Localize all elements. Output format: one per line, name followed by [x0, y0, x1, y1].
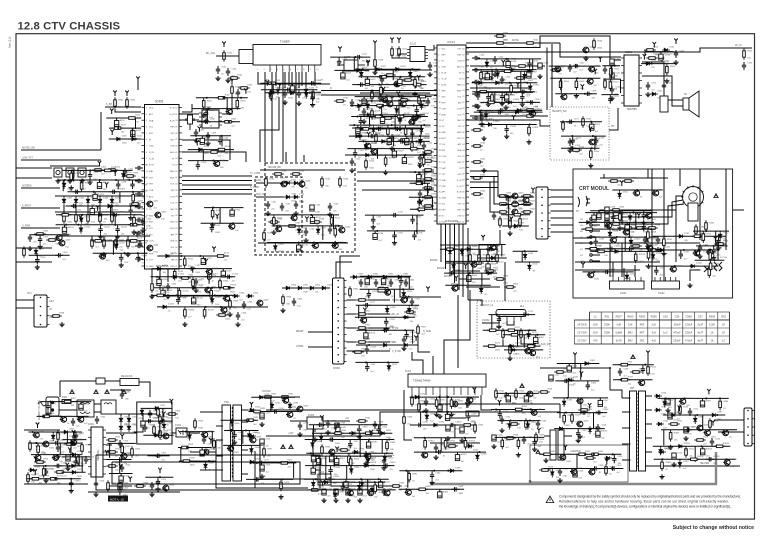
svg-text:D321: D321: [193, 433, 199, 435]
transistor Q101: [393, 81, 400, 87]
resistor R510: [554, 371, 566, 374]
resistor R302: [418, 401, 421, 413]
wire: [374, 231, 376, 234]
capacitor C818: [402, 336, 406, 344]
svg-text:R443: R443: [223, 281, 229, 283]
ground: [683, 436, 688, 441]
transistor N697: [560, 94, 567, 100]
capacitor C1126: [115, 226, 119, 234]
svg-text:D2411: D2411: [696, 263, 703, 265]
capacitor C415: [141, 218, 145, 226]
diode D301: [466, 444, 474, 448]
ground: [296, 101, 301, 106]
svg-text:C1817: C1817: [535, 99, 542, 101]
wire: [502, 225, 529, 227]
svg-text:R934: R934: [325, 447, 331, 449]
svg-text:C914: C914: [89, 457, 95, 459]
CRT pin ticks: [681, 185, 703, 203]
capacitor E286: [445, 414, 449, 420]
warning triangle p124: [122, 390, 126, 394]
capacitor E268: [467, 276, 471, 282]
ground: [697, 254, 702, 259]
resistor R431: [34, 233, 46, 236]
diode D1120: [96, 213, 104, 217]
wire: [241, 409, 248, 411]
resistor R301: [121, 444, 124, 456]
junction: [422, 196, 424, 198]
svg-text:C341: C341: [323, 421, 329, 423]
svg-text:R503: R503: [547, 389, 553, 391]
diode D921: [248, 408, 256, 412]
wire: [491, 70, 493, 80]
wire: [308, 489, 396, 491]
wire: [333, 215, 335, 229]
wire: [112, 241, 114, 255]
capacitor C425: [242, 301, 246, 309]
connector CN501 deflection: [744, 408, 755, 446]
svg-text:C183: C183: [533, 61, 539, 63]
wire: [365, 214, 424, 216]
resistor R102: [228, 77, 240, 80]
capacitor C513: [710, 438, 714, 446]
svg-text:R172: R172: [423, 180, 429, 182]
wire: [109, 443, 111, 458]
transistor Q801: [400, 297, 407, 303]
svg-text:ON/OFF: ON/OFF: [262, 391, 271, 393]
wire: [260, 169, 345, 171]
junction: [301, 225, 303, 227]
transistor N138: [205, 269, 212, 275]
svg-text:N235: N235: [612, 222, 618, 224]
capacitor C918: [150, 482, 154, 490]
svg-text:IC901: IC901: [88, 424, 95, 426]
transistor Q903: [162, 485, 169, 491]
ground: [98, 234, 103, 239]
svg-text:R113: R113: [111, 167, 117, 169]
capacitor C920: [120, 464, 124, 472]
resistor R432: [46, 239, 58, 242]
ground: [492, 72, 497, 77]
wire: [193, 295, 195, 298]
wire: [117, 180, 119, 181]
svg-text:C511: C511: [693, 409, 699, 411]
wire: [499, 230, 501, 245]
ground: [609, 96, 614, 101]
resistor R203: [666, 64, 669, 76]
diode D234: [585, 221, 593, 225]
wire: [447, 412, 449, 415]
capacitor C1813: [500, 93, 504, 101]
junction: [696, 414, 698, 416]
wire: [360, 117, 362, 118]
VCC supply: [382, 87, 386, 93]
resistor R196: [590, 148, 593, 160]
capacitor C1112: [110, 190, 118, 194]
svg-text:R121: R121: [101, 238, 107, 240]
svg-text:C165: C165: [333, 204, 339, 206]
diode D1618: [372, 126, 376, 134]
wire: [654, 458, 736, 460]
wire: [620, 79, 622, 93]
junction: [312, 438, 314, 440]
VCC supply: [707, 389, 711, 395]
svg-text:IR: IR: [50, 309, 53, 311]
ground: [661, 251, 666, 256]
transistor Q402: [154, 212, 161, 218]
junction: [474, 260, 476, 262]
wire: [491, 315, 493, 331]
wire: [137, 253, 139, 254]
capacitor C3610: [595, 410, 603, 414]
resistor R516: [694, 439, 706, 442]
capacitor E1123: [62, 227, 66, 233]
resistor R306: [403, 414, 406, 426]
svg-text:E1111: E1111: [98, 194, 104, 196]
wire: [718, 431, 744, 433]
svg-text:C238: C238: [599, 239, 605, 241]
junction: [370, 148, 372, 150]
wire: [655, 249, 719, 251]
svg-text:1N41: 1N41: [497, 220, 503, 222]
capacitor E187: [527, 72, 531, 78]
wire: [630, 237, 632, 238]
resistor R1615: [395, 115, 407, 118]
wire: [418, 197, 420, 198]
svg-text:D331: D331: [265, 394, 271, 396]
VCC supply: [266, 80, 270, 86]
resistor R303: [467, 396, 470, 408]
svg-text:C56: C56: [675, 315, 680, 319]
wire: [393, 136, 395, 146]
capacitor C302: [116, 457, 124, 461]
capacitor C924: [260, 465, 264, 471]
capacitor C214: [603, 66, 607, 74]
svg-text:N355: N355: [537, 409, 543, 411]
diode D653: [305, 91, 309, 99]
junction: [590, 121, 592, 123]
thick ground bus: [430, 452, 716, 484]
resistor R276: [486, 345, 498, 348]
transistor N1511: [312, 243, 319, 249]
VCC supply: [191, 267, 195, 273]
capacitor C940: [322, 489, 326, 495]
resistor R337: [630, 245, 642, 248]
capacitor C922: [260, 413, 264, 419]
svg-text:1N41: 1N41: [153, 252, 159, 254]
wire: [200, 411, 216, 413]
resistor R323: [179, 446, 191, 449]
svg-text:R158: R158: [339, 229, 345, 231]
resistor R1614: [373, 115, 385, 118]
AC inlet CN901: [46, 397, 59, 416]
speaker LS201: [683, 91, 699, 117]
capacitor C942: [346, 489, 350, 495]
transistor N284: [466, 397, 473, 403]
diode D822: [460, 248, 464, 256]
ground: [417, 207, 422, 212]
svg-text:D157: D157: [321, 228, 327, 230]
VCC supply: [338, 47, 342, 53]
svg-text:E351: E351: [512, 396, 518, 398]
svg-text:R508: R508: [575, 415, 581, 417]
wire: [366, 77, 368, 80]
svg-text:R203: R203: [670, 66, 676, 68]
resistor R423: [87, 212, 90, 224]
wire: [298, 226, 300, 227]
junction: [505, 58, 507, 60]
capacitor C211: [610, 59, 614, 65]
svg-text:C104: C104: [302, 91, 308, 93]
VCC supply: [96, 205, 100, 211]
junction: [480, 82, 482, 84]
capacitor C164: [310, 205, 314, 211]
svg-text:C271: C271: [502, 316, 508, 318]
wire: [59, 409, 77, 411]
delay line DL801: [496, 310, 526, 322]
resistor R134: [422, 187, 434, 190]
svg-text:C1110: C1110: [80, 188, 87, 190]
capacitor C943: [358, 489, 362, 495]
svg-text:1N41: 1N41: [512, 403, 518, 405]
wire: [221, 136, 223, 147]
resistor R103: [270, 89, 273, 101]
H drive transformer T501: [550, 430, 564, 460]
wire: [412, 215, 414, 216]
capacitor C238: [594, 238, 598, 246]
junction: [420, 154, 422, 156]
junction: [423, 124, 425, 126]
junction: [76, 191, 78, 193]
junction: [334, 489, 336, 491]
resistor R214: [646, 57, 658, 60]
svg-text:AV_IN: AV_IN: [735, 44, 742, 47]
ground: [500, 101, 505, 106]
wire: [717, 240, 719, 260]
capacitor C803: [404, 279, 408, 287]
transistor Q501: [526, 391, 533, 397]
capacitor C118: [358, 132, 362, 140]
svg-text:N332: N332: [289, 397, 295, 399]
wire: [211, 432, 213, 447]
ground: [412, 92, 417, 97]
diode D621: [360, 70, 364, 78]
diode D314: [153, 434, 161, 438]
wire: [532, 59, 534, 70]
wire: [454, 425, 456, 438]
VCC supply: [414, 336, 418, 342]
svg-text:1N41: 1N41: [639, 261, 645, 263]
wire: [63, 205, 65, 214]
wire: [359, 76, 426, 78]
svg-text:1N41: 1N41: [575, 422, 581, 424]
svg-text:C346: C346: [335, 436, 341, 438]
wire: [725, 169, 727, 250]
svg-text:1K: 1K: [722, 331, 725, 335]
resistor R502: [515, 388, 518, 400]
VCC supply: [305, 216, 309, 222]
wire: [380, 479, 382, 482]
tuner pin stubs: [270, 65, 315, 72]
resistor R2312: [595, 250, 607, 253]
svg-text:R517: R517: [689, 449, 695, 451]
resistor R121: [92, 240, 104, 243]
resistor R1316: [178, 288, 181, 300]
capacitor C201: [493, 56, 497, 64]
wire: [553, 397, 608, 399]
wire: [50, 165, 100, 167]
svg-text:R325: R325: [190, 458, 196, 460]
capacitor C204: [568, 64, 572, 72]
SMPS controller IC901: [88, 427, 106, 477]
junction: [403, 316, 405, 318]
svg-text:1N41: 1N41: [279, 251, 285, 253]
junction: [132, 191, 134, 193]
svg-text:R2913: R2913: [39, 475, 46, 477]
resistor R338: [695, 224, 698, 236]
capacitor C191: [567, 120, 575, 124]
junction: [292, 214, 294, 216]
wire: [357, 125, 359, 128]
ground: [475, 104, 480, 109]
ground: [645, 92, 650, 97]
svg-text:LOW_TXT: LOW_TXT: [22, 158, 33, 160]
svg-text:C166: C166: [309, 229, 315, 231]
svg-text:C231: C231: [747, 63, 753, 65]
svg-text:R273: R273: [496, 327, 502, 329]
transistor Q300: [511, 193, 518, 199]
wire: [63, 180, 65, 181]
svg-text:14"GKD: 14"GKD: [577, 323, 587, 327]
junction: [115, 179, 117, 181]
resistor R920: [134, 485, 146, 488]
transistor Q161: [280, 181, 287, 187]
diode D2411: [689, 264, 697, 268]
svg-text:R556: R556: [651, 315, 658, 319]
svg-text:1N41: 1N41: [288, 98, 294, 100]
capacitor C137: [188, 266, 196, 270]
ground: [427, 72, 432, 77]
capacitor C800: [359, 279, 363, 287]
junction: [334, 241, 336, 243]
junction: [620, 379, 622, 381]
junction: [521, 408, 523, 410]
junction: [160, 420, 162, 422]
wire: [394, 231, 396, 232]
wire: [733, 209, 744, 211]
diode D115: [62, 181, 66, 189]
diode D311: [153, 407, 161, 411]
svg-text:D504: D504: [661, 407, 667, 409]
capacitor E251: [365, 279, 369, 285]
capacitor E351: [506, 396, 510, 402]
transistor Q332: [706, 249, 713, 255]
resistor R441: [151, 281, 154, 293]
wire: [453, 261, 455, 262]
capacitor C509: [666, 399, 670, 405]
wire: [317, 226, 319, 227]
resistor R122: [411, 140, 414, 152]
VCC supply: [34, 456, 38, 462]
junction: [593, 453, 595, 455]
svg-text:R212: R212: [614, 82, 620, 84]
wire: [645, 265, 718, 267]
wire: [495, 436, 545, 438]
wire: [59, 381, 61, 397]
junction: [643, 221, 645, 223]
junction: [310, 214, 312, 216]
wire: [690, 270, 700, 281]
warning triangle p107: [105, 390, 109, 394]
wire: [444, 272, 497, 274]
wire: [575, 269, 640, 271]
diode D362: [583, 362, 591, 366]
resistor R204: [494, 35, 506, 38]
diode D3420: [312, 480, 316, 488]
wire: [62, 180, 64, 191]
junction: [45, 465, 47, 467]
junction: [478, 451, 480, 453]
capacitor E3410: [311, 456, 315, 462]
warning triangle W1: [546, 496, 554, 503]
wire: [645, 395, 652, 397]
connector CN801 main: [333, 278, 347, 364]
wire: [74, 401, 77, 403]
svg-text:C237: C237: [647, 224, 653, 226]
wire: [55, 195, 145, 197]
svg-text:2R2: 2R2: [640, 339, 645, 343]
wire: [271, 72, 273, 84]
resistor R111: [391, 46, 394, 58]
wire: [614, 59, 621, 61]
wire: [306, 452, 393, 454]
wire: [381, 440, 383, 453]
wire: [256, 182, 284, 184]
capacitor C934: [373, 421, 377, 429]
junction: [388, 438, 390, 440]
svg-text:E2817: E2817: [461, 454, 468, 456]
junction: [338, 424, 340, 426]
wire: [99, 205, 101, 214]
ground: [93, 492, 98, 497]
svg-text:1K8: 1K8: [593, 331, 598, 335]
capacitor C205: [500, 76, 504, 84]
wire: [347, 313, 357, 315]
wire: [466, 120, 550, 126]
svg-text:P1102: P1102: [658, 293, 665, 295]
junction: [609, 367, 611, 369]
VCC supply: [397, 38, 401, 44]
wire: [368, 313, 390, 315]
resistor R444: [229, 298, 232, 310]
resistor R822: [484, 270, 496, 273]
svg-text:C506: C506: [601, 425, 607, 427]
capacitor C145: [472, 116, 480, 120]
svg-text:-: -: [665, 324, 666, 327]
diode D3812: [659, 447, 663, 455]
wire: [260, 396, 300, 398]
svg-text:C162: C162: [285, 204, 291, 206]
resistor R695: [575, 79, 578, 91]
resistor R166: [268, 221, 280, 224]
junction: [406, 100, 408, 102]
svg-text:R937: R937: [267, 449, 273, 451]
svg-text:R301: R301: [125, 446, 131, 448]
resistor R104: [312, 89, 315, 101]
diode D3423: [360, 480, 364, 488]
resistor R2811: [461, 424, 473, 427]
svg-text:C803: C803: [409, 280, 415, 282]
junction: [362, 140, 364, 142]
